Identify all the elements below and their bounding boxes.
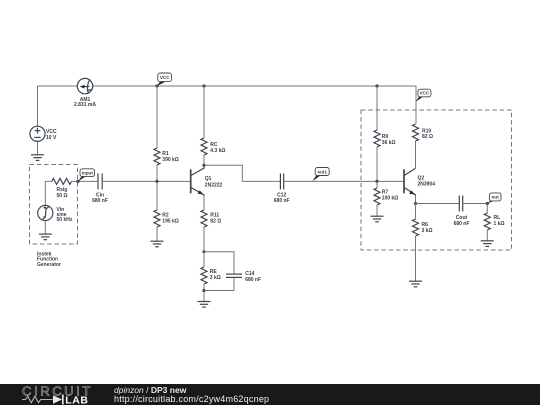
svg-text:2N2222: 2N2222	[205, 183, 223, 189]
wire top rail left	[38, 85, 78, 87]
svg-text:R11: R11	[210, 213, 219, 219]
node R1 top	[155, 84, 158, 87]
node input junction	[76, 180, 79, 183]
ground below Vin	[39, 234, 52, 240]
wire RE top	[203, 252, 205, 267]
flag out1	[312, 168, 329, 182]
wire RL bottom	[486, 230, 488, 241]
node base junction	[155, 180, 158, 183]
output stage dashed box	[361, 110, 512, 250]
node Q2 base junction	[375, 180, 378, 183]
resistor R11	[201, 210, 221, 227]
svg-text:36 kΩ: 36 kΩ	[382, 140, 396, 146]
transistor Q1	[191, 165, 223, 196]
flag input	[78, 169, 95, 182]
wire RE bottom	[203, 284, 205, 302]
svg-text:R6: R6	[422, 222, 429, 228]
wire emitter to R11	[203, 196, 205, 211]
ammeter AM1	[74, 78, 96, 108]
label Instek Function Generator	[37, 251, 61, 268]
wire R7 top	[376, 181, 378, 188]
source Vin sine	[38, 205, 73, 223]
wire C12 to Q2 base	[284, 180, 404, 182]
resistor R9	[374, 130, 396, 147]
svg-text:10 V: 10 V	[46, 135, 57, 141]
svg-text:82 Ω: 82 Ω	[422, 134, 433, 140]
resistor R7	[374, 188, 398, 205]
node R9 top	[375, 84, 378, 87]
wire R6 bottom	[415, 236, 417, 281]
ground below RE	[198, 302, 211, 308]
resistor R6	[413, 219, 433, 236]
voltage source VCC	[30, 126, 57, 141]
svg-text:680 nF: 680 nF	[454, 221, 470, 227]
svg-text:Q2: Q2	[418, 175, 425, 181]
ground below R7	[371, 216, 384, 222]
wire RC branch top	[203, 86, 205, 138]
svg-text:R7: R7	[382, 189, 389, 195]
wire Cin to Q1 base	[102, 180, 190, 182]
footer bar	[0, 384, 540, 405]
transistor Q2	[404, 168, 435, 196]
wire R2 top	[156, 181, 158, 210]
capacitor C12	[274, 173, 290, 204]
wire collector to C12	[204, 165, 280, 181]
resistor Rsig	[52, 178, 72, 198]
svg-text:680 nF: 680 nF	[274, 198, 290, 204]
wire R9 branch top	[376, 86, 378, 130]
ground below RL	[481, 241, 494, 247]
capacitor C14	[226, 271, 261, 283]
svg-text:82 Ω: 82 Ω	[210, 219, 221, 225]
svg-text:100 kΩ: 100 kΩ	[382, 196, 399, 202]
wire emitter to Cout	[416, 203, 460, 205]
svg-text:680 nF: 680 nF	[245, 277, 261, 283]
resistor RC	[201, 138, 225, 155]
svg-text:out1: out1	[317, 169, 327, 174]
svg-text:out: out	[492, 195, 500, 200]
svg-text:1 kΩ: 1 kΩ	[494, 221, 505, 227]
wire RL top	[486, 204, 488, 214]
svg-text:390 kΩ: 390 kΩ	[162, 157, 179, 163]
wire R11 bottom	[203, 227, 205, 252]
svg-text:3 kΩ: 3 kΩ	[422, 228, 433, 234]
node RL top	[486, 202, 489, 205]
svg-text:50 kHz: 50 kHz	[57, 217, 73, 223]
wire R1 branch top	[156, 86, 158, 148]
node emitter junction	[414, 202, 417, 205]
wire Q2 emitter	[415, 196, 417, 204]
node RE bottom junction	[202, 289, 205, 292]
ground below R2	[151, 241, 164, 247]
svg-text:3 kΩ: 3 kΩ	[210, 275, 221, 281]
resistor R1	[154, 148, 179, 165]
svg-text:LAB: LAB	[65, 395, 88, 405]
resistor RE	[201, 267, 221, 284]
svg-text:R2: R2	[162, 213, 169, 219]
svg-text:50 Ω: 50 Ω	[57, 193, 68, 199]
wire C14 top	[204, 252, 234, 274]
wire Vin bottom	[44, 221, 46, 235]
flag VCC right	[416, 89, 431, 102]
svg-text:Q1: Q1	[205, 176, 212, 182]
ground below VCC source	[31, 155, 44, 161]
capacitor Cout	[454, 196, 470, 228]
flag out	[487, 193, 501, 204]
svg-text:input: input	[82, 170, 94, 175]
svg-text:Generator: Generator	[37, 262, 61, 268]
node R11-RE junction	[202, 250, 205, 253]
svg-text:VCC: VCC	[160, 75, 170, 80]
node collector junction	[202, 164, 205, 167]
svg-text:C14: C14	[245, 271, 254, 277]
wire R7 bottom	[376, 205, 378, 216]
resistor R2	[154, 210, 179, 227]
wire Rsig to input node	[72, 180, 98, 182]
svg-text:RE: RE	[210, 269, 218, 275]
wire R1 bottom	[156, 165, 158, 181]
wire R9 bottom	[376, 147, 378, 181]
svg-text:680 nF: 680 nF	[92, 198, 108, 204]
flag VCC middle	[157, 73, 172, 86]
capacitor Cin	[92, 173, 108, 203]
svg-text:2N3904: 2N3904	[418, 182, 436, 188]
svg-text:Cout: Cout	[456, 215, 468, 221]
wire R10 bottom to Q2 collector	[415, 141, 417, 168]
wire R6 top	[415, 204, 417, 220]
wire C14 bottom	[204, 277, 234, 290]
svg-text:4.3 kΩ: 4.3 kΩ	[210, 148, 225, 154]
footer text	[114, 385, 186, 395]
wire R2 bottom	[156, 227, 158, 241]
resistor RL	[484, 213, 504, 230]
wire RC bottom	[203, 155, 205, 165]
CircuitLab logo	[20, 384, 120, 405]
svg-text:195 kΩ: 195 kΩ	[162, 219, 179, 225]
wire VCC source top	[37, 86, 39, 126]
wire top rail right	[93, 86, 416, 124]
wire Cout to RL	[463, 203, 488, 205]
wire VCC source bottom	[37, 141, 39, 154]
ground below R6	[409, 281, 422, 287]
svg-text:2.831 mA: 2.831 mA	[74, 102, 96, 108]
function generator dashed box	[30, 165, 78, 245]
node RC top	[202, 84, 205, 87]
wire Vin to Rsig	[45, 181, 51, 205]
svg-text:RL: RL	[494, 215, 501, 221]
svg-text:VCC: VCC	[420, 91, 430, 96]
resistor R10	[413, 124, 433, 141]
